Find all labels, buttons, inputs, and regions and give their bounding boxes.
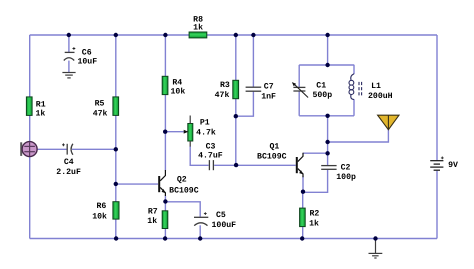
svg-text:C5: C5 [216,211,226,220]
svg-text:100p: 100p [336,173,356,182]
svg-text:200uH: 200uH [368,92,393,101]
svg-text:1k: 1k [147,217,157,226]
svg-text:R3: R3 [220,81,230,90]
svg-text:Q1: Q1 [269,142,279,151]
svg-text:Q2: Q2 [177,175,187,184]
svg-text:C7: C7 [264,83,274,92]
svg-text:C3: C3 [206,143,216,152]
svg-text:10k: 10k [92,212,107,221]
svg-text:1k: 1k [309,220,319,229]
svg-text:10k: 10k [171,87,186,96]
svg-text:C4: C4 [64,158,74,167]
svg-text:R5: R5 [95,100,105,109]
svg-text:R1: R1 [36,101,46,110]
svg-text:BC109C: BC109C [257,153,287,162]
svg-text:C1: C1 [316,82,326,91]
svg-text:1nF: 1nF [261,92,276,101]
svg-text:4.7k: 4.7k [196,128,216,137]
svg-text:10uF: 10uF [77,57,97,66]
svg-text:47k: 47k [215,91,230,100]
svg-text:500p: 500p [312,91,332,100]
svg-text:1k: 1k [35,110,45,119]
svg-text:L1: L1 [371,82,381,91]
svg-text:100uF: 100uF [212,221,237,230]
svg-text:9V: 9V [448,161,458,170]
svg-text:P1: P1 [200,118,210,127]
svg-text:2.2uF: 2.2uF [56,168,81,177]
svg-text:47k: 47k [93,109,108,118]
svg-text:C2: C2 [341,164,351,173]
svg-text:4.7uF: 4.7uF [198,152,223,161]
svg-text:R7: R7 [148,208,158,217]
svg-text:1k: 1k [193,24,203,33]
svg-text:BC109C: BC109C [169,186,199,195]
svg-text:R6: R6 [96,202,106,211]
svg-text:C6: C6 [82,48,92,57]
svg-text:R2: R2 [309,209,319,218]
